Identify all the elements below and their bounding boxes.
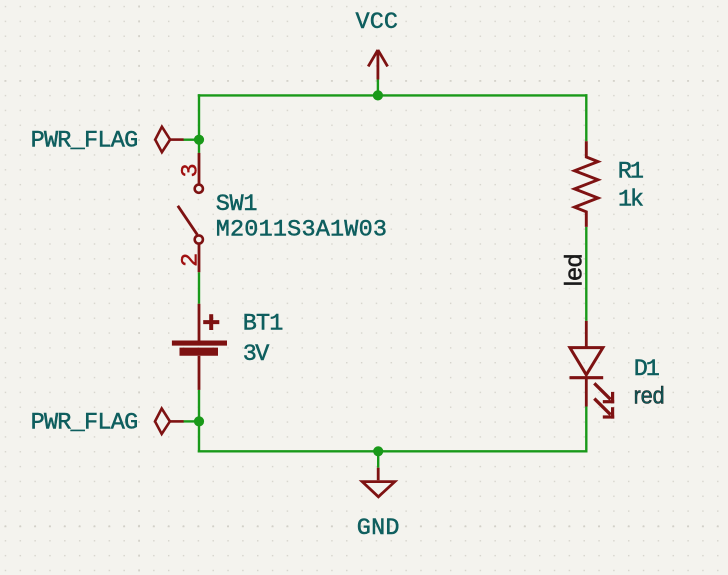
svg-text:led: led <box>561 254 588 287</box>
BT1 plus sign <box>203 320 219 324</box>
wire vcc stem green <box>377 80 379 96</box>
D1 emission arrow 2 <box>594 399 610 415</box>
svg-text:M2011S3A1W03: M2011S3A1W03 <box>216 217 387 244</box>
svg-text:2: 2 <box>178 253 205 267</box>
wire pwr_flag stub bottom green <box>183 420 199 422</box>
junction at top PWR_FLAG <box>194 135 204 145</box>
D1 emission arrow 1 <box>594 383 610 399</box>
wire left vertical upper <box>198 94 200 153</box>
svg-text:SW1: SW1 <box>216 191 258 218</box>
SW1 contact circle top <box>195 185 203 193</box>
BT1 pin top <box>198 304 201 341</box>
junction at VCC <box>373 90 383 100</box>
wire pwr_flag stub top green <box>183 138 199 140</box>
wire right vertical lower <box>585 407 587 453</box>
D1 pin top <box>585 321 588 347</box>
junction at GND <box>373 446 383 456</box>
svg-text:GND: GND <box>357 515 400 542</box>
SW1 pin 2 <box>198 244 201 272</box>
PWR_FLAG top diamond <box>155 127 183 153</box>
SW1 pin 3 <box>198 153 201 184</box>
svg-text:PWR_FLAG: PWR_FLAG <box>31 128 139 155</box>
SW1 contact circle bottom <box>195 235 203 243</box>
D1 pin bottom <box>585 379 588 407</box>
svg-text:3: 3 <box>178 163 205 177</box>
wire top horizontal <box>198 94 588 96</box>
wire right vertical upper <box>585 94 587 141</box>
power symbol VCC <box>368 50 387 80</box>
LED D1 <box>570 321 615 419</box>
resistor R1 <box>575 141 599 227</box>
wire left vertical lower <box>198 390 200 453</box>
svg-text:red: red <box>634 383 665 410</box>
svg-text:VCC: VCC <box>356 9 399 36</box>
svg-text:1k: 1k <box>618 187 644 214</box>
svg-text:BT1: BT1 <box>243 310 284 337</box>
svg-text:PWR_FLAG: PWR_FLAG <box>31 410 139 437</box>
BT1 bottom plate <box>180 348 219 356</box>
PWR_FLAG bottom diamond <box>155 409 184 435</box>
wire right vertical r-led <box>585 227 587 321</box>
svg-text:R1: R1 <box>618 158 644 185</box>
BT1 top plate <box>172 340 227 345</box>
switch SW1 <box>178 153 203 272</box>
power symbol GND <box>362 468 395 497</box>
SW1 lever <box>178 206 198 235</box>
svg-text:D1: D1 <box>634 356 660 383</box>
D1 cathode bar <box>570 376 604 379</box>
svg-text:3V: 3V <box>243 341 270 368</box>
wire bottom horizontal <box>198 450 588 452</box>
battery BT1 <box>172 304 227 390</box>
wire gnd stem green <box>377 451 379 467</box>
wire left vertical sw-bat <box>198 272 200 304</box>
junction at bottom PWR_FLAG <box>194 416 204 426</box>
D1 triangle <box>570 348 603 375</box>
BT1 pin bottom <box>198 356 201 390</box>
